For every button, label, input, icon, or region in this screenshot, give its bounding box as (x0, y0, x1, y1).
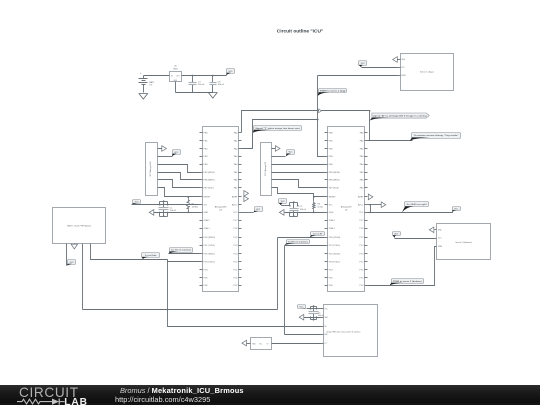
svg-text:Atmega1284: Atmega1284 (215, 206, 227, 209)
svg-text:PD1 (TXD0): PD1 (TXD0) (204, 245, 215, 247)
svg-text:SMR7 - RC217 RF Module: SMR7 - RC217 RF Module (67, 225, 92, 227)
svg-text:U5: U5 (174, 66, 178, 68)
svg-text:R4: R4 (317, 204, 320, 206)
svg-text:AREF: AREF (232, 196, 238, 199)
svg-text:AVCC: AVCC (232, 204, 238, 207)
svg-text:XTAL2: XTAL2 (329, 219, 336, 222)
svg-text:7805: 7805 (173, 69, 178, 71)
svg-text:OUT: OUT (176, 75, 179, 77)
svg-text:VCC: VCC (454, 208, 459, 210)
svg-text:100 nF: 100 nF (300, 209, 307, 211)
svg-text:10 MΩ: 10 MΩ (192, 207, 199, 209)
svg-text:GND: GND (329, 212, 334, 214)
svg-text:9 V: 9 V (149, 85, 153, 87)
svg-text:VCC: VCC (289, 152, 294, 154)
svg-text:100 nF: 100 nF (170, 210, 177, 212)
svg-text:VCC: VCC (256, 209, 261, 211)
svg-text:PB6 (MISO): PB6 (MISO) (329, 180, 340, 182)
svg-text:10 kΩ: 10 kΩ (317, 207, 323, 209)
svg-text:5v tx on RF: 5v tx on RF (313, 232, 323, 235)
svg-text:C6: C6 (318, 313, 320, 315)
svg-text:LAB: LAB (64, 397, 88, 406)
svg-text:100 nF: 100 nF (198, 84, 205, 86)
svg-text:VCC: VCC (233, 212, 238, 214)
svg-text:XTAL1: XTAL1 (329, 227, 336, 230)
svg-text:PD0 (RXD0): PD0 (RXD0) (204, 237, 216, 239)
svg-text:To motion sensor during "Cap m: To motion sensor during "Cap mode" (414, 134, 459, 137)
svg-text:RESET: RESET (204, 197, 212, 199)
svg-text:PB5 (MOSI): PB5 (MOSI) (329, 172, 340, 174)
svg-text:PWM to servo 2 (bottom): PWM to servo 2 (bottom) (393, 280, 422, 283)
svg-text:C7: C7 (198, 81, 202, 83)
svg-text:SPI 2 Atmega128: SPI 2 Atmega128 (264, 162, 267, 176)
svg-text:+: + (140, 72, 142, 75)
svg-text:PWM: PWM (401, 75, 406, 77)
svg-text:To rx on Radio: To rx on Radio (145, 255, 157, 257)
svg-text:VCC: VCC (281, 201, 286, 203)
svg-text:VCC: VCC (359, 212, 364, 214)
svg-text:PWM: PWM (438, 246, 443, 248)
svg-text:VCC: VCC (229, 71, 234, 73)
svg-text:SPI 1 Atmega1284: SPI 1 Atmega1284 (149, 162, 152, 177)
svg-text:PB7 (SCK): PB7 (SCK) (329, 188, 339, 190)
svg-text:PB5 (MOSI): PB5 (MOSI) (204, 172, 215, 174)
svg-text:PD0 (RXD0): PD0 (RXD0) (329, 237, 341, 239)
svg-text:PD2 (RXD1): PD2 (RXD1) (204, 254, 216, 256)
svg-text:100 nF: 100 nF (218, 84, 225, 86)
svg-text:PWM to servo 1 (leg): PWM to servo 1 (leg) (320, 89, 346, 92)
svg-text:PD2 (RXD1): PD2 (RXD1) (329, 254, 341, 256)
svg-text:BAT1: BAT1 (149, 81, 155, 84)
svg-text:100 nF: 100 nF (318, 315, 325, 317)
svg-text:Servo 1 (legs): Servo 1 (legs) (420, 71, 434, 74)
svg-text:PB7 (SCK): PB7 (SCK) (204, 188, 214, 190)
svg-text:AVCC: AVCC (358, 204, 364, 207)
svg-text:signal "A" to atmega128 if ima: signal "A" to atmega128 if image is comi… (373, 114, 427, 117)
svg-text:PD3 (TXD1): PD3 (TXD1) (204, 262, 215, 264)
svg-text:VCC: VCC (361, 63, 366, 65)
svg-text:VCC: VCC (174, 152, 179, 154)
svg-text:XTAL1: XTAL1 (204, 227, 211, 230)
svg-text:C1: C1 (170, 207, 173, 209)
svg-text:serial(a JPEG color camera wit: serial(a JPEG color camera with TTL inte… (326, 331, 360, 334)
svg-text:VCC: VCC (70, 262, 75, 264)
svg-text:C5: C5 (300, 206, 303, 208)
svg-text:XTAL2: XTAL2 (204, 219, 211, 222)
svg-text:C8: C8 (218, 81, 222, 83)
svg-text:PD1 (TXD0): PD1 (TXD0) (329, 245, 340, 247)
svg-text:PB6 (MISO): PB6 (MISO) (204, 180, 215, 182)
svg-text:PD3 (TXD1): PD3 (TXD1) (329, 262, 340, 264)
svg-text:Atmega128: Atmega128 (341, 206, 352, 209)
svg-text:GND: GND (204, 212, 209, 214)
svg-text:5v GND on opt1: 5v GND on opt1 (407, 203, 427, 206)
svg-text:Circuit outline "ICU": Circuit outline "ICU" (277, 28, 323, 34)
svg-text:Signal "Y" when image has been: Signal "Y" when image has been sent (255, 127, 300, 130)
svg-text:RESET: RESET (329, 197, 337, 199)
svg-text:To TX on Camera: To TX on Camera (171, 250, 192, 252)
svg-text:To RX on Camera: To RX on Camera (288, 240, 309, 243)
svg-text:VCC: VCC (394, 233, 399, 235)
svg-text:TXL: TXL (259, 343, 262, 345)
svg-text:VCC: VCC (135, 201, 140, 203)
svg-text:AREF: AREF (358, 196, 364, 199)
svg-text:VCC: VCC (300, 307, 305, 309)
svg-text:Servo 2 (bottom): Servo 2 (bottom) (455, 241, 472, 244)
